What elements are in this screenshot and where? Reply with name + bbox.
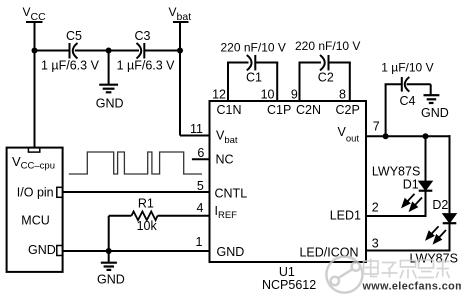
svg-text:C1P: C1P xyxy=(267,103,291,117)
svg-text:NC: NC xyxy=(216,153,234,167)
svg-text:220 nF/10 V: 220 nF/10 V xyxy=(295,39,360,53)
wire C5 to junction xyxy=(75,50,109,52)
LED D1 emission arrows xyxy=(403,194,422,211)
svg-text:C1N: C1N xyxy=(217,103,242,117)
MCU xyxy=(7,148,63,272)
svg-text:Vbat: Vbat xyxy=(169,5,192,23)
ground (top, between C5 and C3) xyxy=(96,51,124,111)
wire VCC vertical xyxy=(34,22,36,148)
svg-text:12: 12 xyxy=(212,87,226,101)
svg-text:LWY87S: LWY87S xyxy=(372,164,420,178)
svg-text:CNTL: CNTL xyxy=(215,187,248,201)
junction C5/C3/GND xyxy=(106,48,112,54)
svg-text:D1: D1 xyxy=(403,178,419,192)
svg-text:1 µF/6.3 V: 1 µF/6.3 V xyxy=(117,59,176,73)
junction D1 drop xyxy=(423,133,429,139)
svg-text:220 nF/10 V: 220 nF/10 V xyxy=(221,40,286,54)
capacitor C5 xyxy=(41,29,100,73)
svg-text:2: 2 xyxy=(372,201,379,215)
junction Vbat/C3 xyxy=(177,48,183,54)
wire C4 right to ground xyxy=(407,83,431,85)
svg-text:4: 4 xyxy=(197,201,204,215)
wire junction to C3 xyxy=(109,50,139,52)
wire C3 to Vbat xyxy=(144,50,180,52)
svg-text:GND: GND xyxy=(96,97,124,111)
wire C1 top left xyxy=(227,62,249,64)
svg-text:MCU: MCU xyxy=(21,214,49,228)
svg-text:IREF: IREF xyxy=(215,204,238,221)
svg-text:GND: GND xyxy=(28,243,56,257)
svg-text:10k: 10k xyxy=(137,219,158,233)
svg-text:C5: C5 xyxy=(66,29,82,43)
svg-text:C2: C2 xyxy=(318,70,334,84)
svg-text:VCC–cpu: VCC–cpu xyxy=(12,154,55,172)
wire D1 anode xyxy=(425,136,427,181)
wire pin 12 up xyxy=(227,63,229,102)
svg-text:C2N: C2N xyxy=(296,103,321,117)
svg-text:GND: GND xyxy=(97,273,125,287)
svg-text:6: 6 xyxy=(197,146,204,160)
svg-text:Vbat: Vbat xyxy=(216,129,238,147)
svg-text:Vout: Vout xyxy=(338,125,360,145)
wire GND net (MCU GND to pin 1) xyxy=(63,250,211,252)
wire C4 riser xyxy=(385,84,387,136)
resistor R1 xyxy=(109,196,211,233)
node VCC xyxy=(23,5,47,23)
wire VCC to C5 xyxy=(35,50,70,52)
svg-text:I/O pin: I/O pin xyxy=(17,186,54,200)
svg-text:C4: C4 xyxy=(400,94,416,108)
LED D2 emission arrows xyxy=(427,226,446,243)
wire pin 10 up xyxy=(276,63,278,102)
svg-text:LED1: LED1 xyxy=(330,209,361,223)
ground (below R1 junction) xyxy=(97,251,125,287)
svg-text:C2P: C2P xyxy=(336,103,360,117)
svg-text:1 µF/10 V: 1 µF/10 V xyxy=(381,61,433,75)
capacitor C3 xyxy=(117,29,176,73)
junction GND net xyxy=(106,248,112,254)
wire D1 cathode to pin 2 xyxy=(366,191,426,216)
svg-text:R1: R1 xyxy=(138,196,154,210)
capacitor C1 xyxy=(221,40,286,84)
svg-text:1: 1 xyxy=(196,235,203,249)
svg-text:GND: GND xyxy=(217,245,245,259)
junction C4 riser xyxy=(383,133,389,139)
svg-text:9: 9 xyxy=(291,87,298,101)
LED D2 xyxy=(432,198,456,223)
wire C2 top left xyxy=(299,62,322,64)
wire D2 drop xyxy=(449,135,451,213)
svg-text:7: 7 xyxy=(373,120,380,134)
wire Vbat vertical xyxy=(179,22,181,136)
svg-text:GND: GND xyxy=(421,106,449,120)
svg-text:5: 5 xyxy=(197,179,204,193)
svg-text:1 µF/6.3 V: 1 µF/6.3 V xyxy=(41,59,100,73)
svg-text:www.elecfans.com: www.elecfans.com xyxy=(362,281,461,293)
LED D1 xyxy=(372,164,432,191)
svg-text:10: 10 xyxy=(261,87,275,101)
wire pin 8 up xyxy=(349,63,351,102)
capacitor C2 xyxy=(295,39,360,85)
node Vbat xyxy=(169,5,192,23)
svg-text:VCC: VCC xyxy=(23,5,47,23)
wire pin 7 (Vout) to D2 corner xyxy=(366,135,451,137)
capacitor C4 xyxy=(381,61,433,108)
IC U1 (NCP5612) xyxy=(210,101,367,262)
wire Vbat to pin 11 xyxy=(180,135,211,137)
svg-text:C1: C1 xyxy=(246,70,262,84)
ground (right of C4) xyxy=(421,84,449,120)
pin 6 NC stub wire xyxy=(192,158,210,160)
wire C2 top right xyxy=(329,62,351,64)
svg-text:C3: C3 xyxy=(135,29,151,43)
svg-text:D2: D2 xyxy=(432,198,448,212)
svg-text:8: 8 xyxy=(339,87,346,101)
svg-text:NCP5612: NCP5612 xyxy=(262,278,316,292)
wire C4 left xyxy=(385,83,401,85)
svg-text:3: 3 xyxy=(372,237,379,251)
svg-text:U1: U1 xyxy=(279,265,295,279)
wire D2 cathode to pin 3 xyxy=(366,223,450,250)
junction VCC/C5 xyxy=(32,48,38,54)
PWM waveform xyxy=(69,152,202,174)
wire CNTL (I/O pin to pin 5) xyxy=(63,191,211,193)
svg-text:11: 11 xyxy=(190,122,203,136)
wire pin 9 up xyxy=(299,63,301,102)
wire R1 riser xyxy=(108,216,110,251)
wire C1 top right xyxy=(256,62,279,64)
